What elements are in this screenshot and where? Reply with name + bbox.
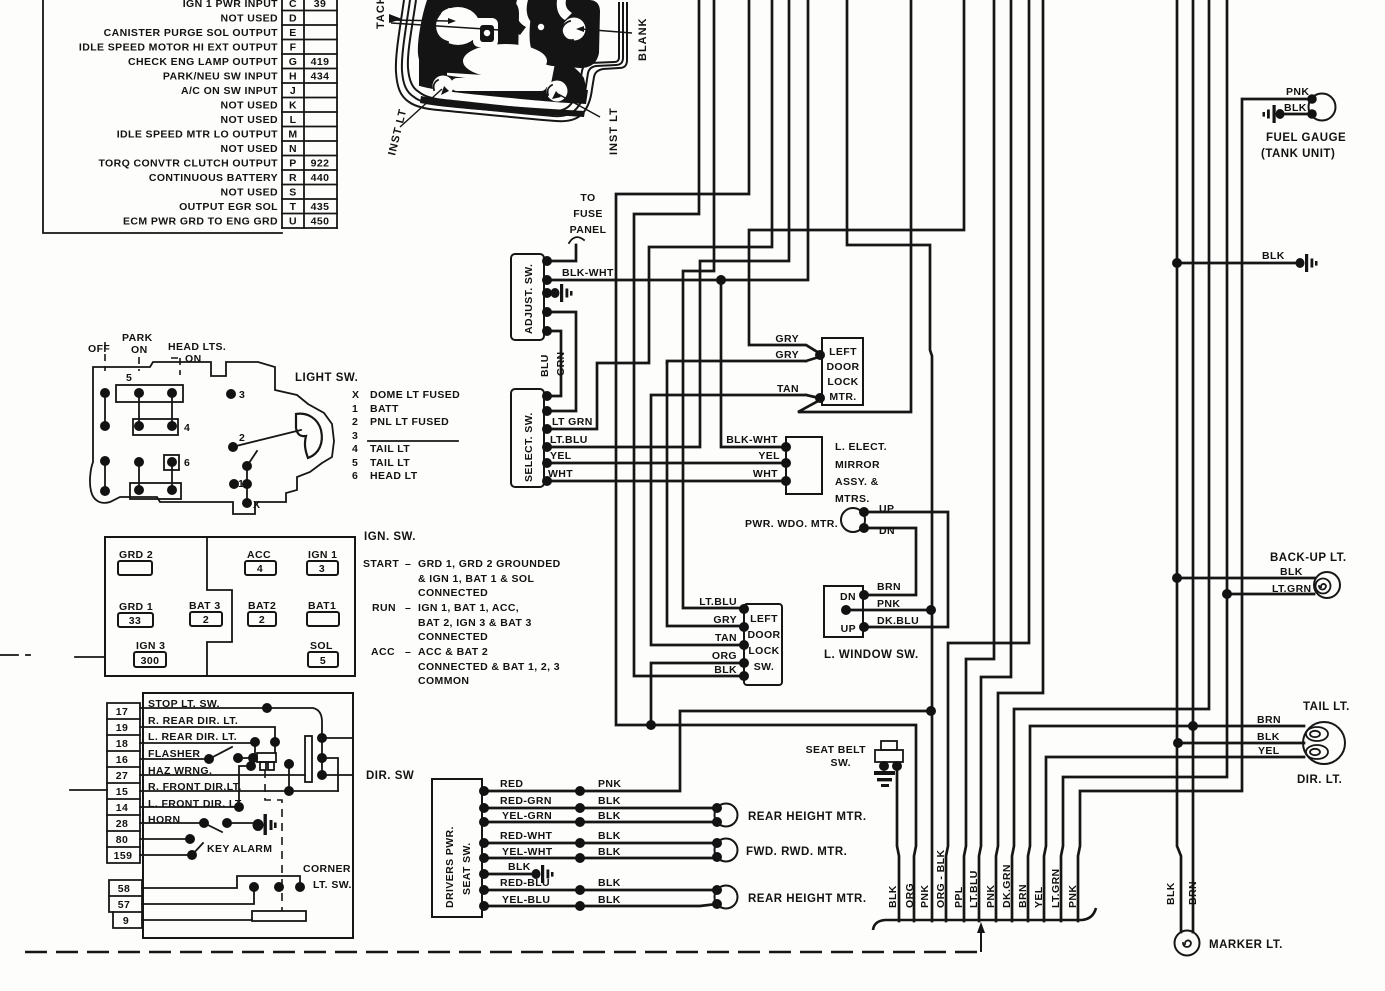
svg-text:LT.GRN: LT.GRN: [1050, 868, 1062, 908]
svg-text:–: –: [405, 602, 411, 614]
svg-text:58: 58: [118, 883, 130, 895]
svg-text:3: 3: [352, 430, 358, 442]
svg-text:9: 9: [123, 915, 129, 927]
svg-text:IDLE SPEED MTR LO OUTPUT: IDLE SPEED MTR LO OUTPUT: [117, 129, 278, 141]
svg-text:BLK: BLK: [598, 795, 621, 807]
svg-text:BLK: BLK: [598, 830, 621, 842]
svg-text:MTR.: MTR.: [829, 391, 856, 403]
svg-text:PARK: PARK: [122, 332, 153, 344]
svg-text:YEL: YEL: [1258, 745, 1280, 757]
svg-text:IGN 1 PWR INPUT: IGN 1 PWR INPUT: [183, 0, 278, 10]
svg-text:BLK: BLK: [1165, 882, 1177, 905]
svg-text:SW.: SW.: [754, 661, 774, 673]
svg-text:CONNECTED: CONNECTED: [418, 587, 488, 599]
svg-text:REAR HEIGHT MTR.: REAR HEIGHT MTR.: [748, 811, 867, 823]
svg-text:18: 18: [116, 738, 128, 750]
svg-text:P: P: [289, 158, 296, 170]
svg-text:YEL-GRN: YEL-GRN: [502, 810, 552, 822]
svg-text:FWD. RWD. MTR.: FWD. RWD. MTR.: [746, 846, 847, 858]
svg-text:33: 33: [129, 615, 141, 627]
svg-text:CHECK ENG LAMP OUTPUT: CHECK ENG LAMP OUTPUT: [128, 56, 278, 68]
svg-text:UP: UP: [879, 503, 894, 515]
svg-text:GRY: GRY: [775, 349, 799, 361]
svg-text:RED-GRN: RED-GRN: [500, 795, 552, 807]
svg-text:PNK: PNK: [1067, 885, 1079, 908]
svg-text:3: 3: [319, 563, 325, 575]
svg-text:(TANK UNIT): (TANK UNIT): [1261, 148, 1335, 160]
svg-text:6: 6: [184, 457, 190, 469]
svg-text:PNK: PNK: [919, 885, 931, 908]
svg-text:TAIL LT.: TAIL LT.: [1303, 701, 1350, 713]
svg-text:28: 28: [116, 818, 128, 830]
svg-text:CONNECTED & BAT 1, 2, 3: CONNECTED & BAT 1, 2, 3: [418, 661, 560, 673]
svg-text:LT. SW.: LT. SW.: [313, 879, 352, 891]
svg-text:ORG: ORG: [904, 883, 916, 908]
svg-text:19: 19: [116, 722, 128, 734]
svg-text:DRIVERS PWR.: DRIVERS PWR.: [444, 826, 456, 908]
svg-text:ACC: ACC: [247, 549, 271, 561]
svg-text:5: 5: [352, 457, 358, 469]
svg-text:NOT USED: NOT USED: [221, 187, 278, 199]
svg-text:OFF: OFF: [88, 343, 110, 355]
svg-text:BLK: BLK: [887, 885, 899, 908]
svg-text:F: F: [290, 42, 297, 54]
svg-text:CORNER: CORNER: [303, 863, 351, 875]
svg-text:C: C: [289, 0, 297, 10]
svg-text:BLK: BLK: [1280, 566, 1303, 578]
svg-text:BRN: BRN: [1257, 714, 1281, 726]
svg-text:2: 2: [352, 416, 358, 428]
svg-text:R. REAR DIR. LT.: R. REAR DIR. LT.: [148, 715, 238, 727]
svg-text:IDLE SPEED MOTOR HI EXT OUTPUT: IDLE SPEED MOTOR HI EXT OUTPUT: [79, 42, 278, 54]
svg-text:PNK: PNK: [598, 778, 621, 790]
svg-text:6: 6: [352, 470, 358, 482]
svg-text:922: 922: [311, 158, 330, 170]
svg-text:HEAD LTS.: HEAD LTS.: [168, 341, 226, 353]
svg-text:1: 1: [238, 478, 244, 490]
svg-text:GRN: GRN: [555, 351, 567, 376]
svg-text:TO: TO: [580, 192, 595, 204]
svg-text:57: 57: [118, 899, 130, 911]
svg-text:RED-BLU: RED-BLU: [500, 877, 550, 889]
svg-text:BRN: BRN: [1017, 884, 1029, 908]
svg-text:MIRROR: MIRROR: [835, 459, 880, 471]
svg-text:159: 159: [114, 850, 133, 862]
svg-text:RED-WHT: RED-WHT: [500, 830, 553, 842]
svg-text:GRD 2: GRD 2: [119, 549, 153, 561]
svg-text:LEFT: LEFT: [750, 613, 778, 625]
svg-text:435: 435: [311, 201, 330, 213]
svg-text:27: 27: [116, 770, 128, 782]
svg-text:DN: DN: [879, 525, 895, 537]
svg-text:SOL: SOL: [310, 640, 333, 652]
svg-text:START: START: [363, 558, 399, 570]
svg-text:GRD 1: GRD 1: [119, 601, 153, 613]
svg-text:X: X: [352, 389, 359, 401]
svg-text:BLK: BLK: [508, 861, 531, 873]
svg-text:RUN: RUN: [372, 602, 396, 614]
svg-text:R: R: [289, 172, 297, 184]
svg-text:17: 17: [116, 706, 128, 718]
svg-text:419: 419: [311, 56, 330, 68]
svg-text:KEY ALARM: KEY ALARM: [207, 843, 272, 855]
svg-text:CONNECTED: CONNECTED: [418, 631, 488, 643]
svg-text:GRY: GRY: [775, 333, 799, 345]
svg-text:BRN: BRN: [877, 581, 901, 593]
svg-text:DOOR: DOOR: [747, 629, 780, 641]
svg-text:M: M: [288, 129, 297, 141]
svg-text:ACC: ACC: [371, 646, 395, 658]
svg-text:L. FRONT DIR. LT.: L. FRONT DIR. LT.: [148, 798, 244, 810]
svg-text:L. ELECT.: L. ELECT.: [835, 441, 887, 453]
svg-text:1: 1: [352, 403, 358, 415]
svg-text:4: 4: [184, 422, 190, 434]
svg-text:BLANK: BLANK: [637, 18, 649, 62]
svg-text:GRD 1, GRD 2 GROUNDED: GRD 1, GRD 2 GROUNDED: [418, 558, 561, 570]
svg-text:SW.: SW.: [831, 757, 851, 769]
svg-text:4: 4: [352, 443, 358, 455]
svg-text:HORN: HORN: [148, 814, 181, 826]
svg-text:450: 450: [311, 216, 330, 228]
svg-text:440: 440: [311, 172, 330, 184]
svg-text:CONTINUOUS BATTERY: CONTINUOUS BATTERY: [149, 172, 278, 184]
svg-text:SELECT. SW.: SELECT. SW.: [523, 412, 535, 482]
svg-text:PWR. WDO. MTR.: PWR. WDO. MTR.: [745, 518, 838, 530]
svg-text:14: 14: [116, 802, 128, 814]
svg-text:2: 2: [239, 432, 245, 444]
svg-text:TAIL LT: TAIL LT: [370, 443, 410, 455]
svg-text:BLK-WHT: BLK-WHT: [562, 267, 614, 279]
svg-text:J: J: [290, 85, 296, 97]
svg-text:PNK: PNK: [985, 885, 997, 908]
svg-text:DN: DN: [840, 591, 856, 603]
svg-text:DOOR: DOOR: [826, 361, 859, 373]
svg-text:FUSE: FUSE: [573, 208, 603, 220]
svg-text:UP: UP: [841, 623, 856, 635]
svg-text:BLK: BLK: [598, 846, 621, 858]
svg-text:ECM PWR GRD TO ENG GRD: ECM PWR GRD TO ENG GRD: [123, 216, 278, 228]
svg-text:SEAT BELT: SEAT BELT: [806, 744, 867, 756]
svg-text:ACC & BAT 2: ACC & BAT 2: [418, 646, 488, 658]
svg-text:2: 2: [259, 614, 265, 626]
svg-text:RED: RED: [500, 778, 523, 790]
svg-text:–: –: [405, 646, 411, 658]
svg-text:ON: ON: [185, 353, 202, 365]
svg-text:BLK: BLK: [598, 810, 621, 822]
svg-text:NOT USED: NOT USED: [221, 114, 278, 126]
svg-text:ON: ON: [131, 344, 148, 356]
svg-text:E: E: [289, 27, 296, 39]
svg-text:16: 16: [116, 754, 128, 766]
svg-text:DIR. SW: DIR. SW: [366, 770, 414, 782]
svg-text:FUEL GAUGE: FUEL GAUGE: [1266, 132, 1346, 144]
svg-text:A/C ON SW INPUT: A/C ON SW INPUT: [181, 85, 278, 97]
svg-text:BLK: BLK: [1284, 102, 1307, 114]
svg-text:IGN 3: IGN 3: [136, 640, 165, 652]
svg-text:PNK: PNK: [1286, 86, 1309, 98]
svg-text:LIGHT SW.: LIGHT SW.: [295, 372, 358, 384]
svg-text:H: H: [289, 71, 297, 83]
svg-text:MARKER LT.: MARKER LT.: [1209, 939, 1283, 951]
svg-text:39: 39: [314, 0, 326, 10]
svg-text:DIR. LT.: DIR. LT.: [1297, 774, 1342, 786]
svg-text:WHT: WHT: [753, 468, 778, 480]
svg-text:BLK: BLK: [1257, 731, 1280, 743]
svg-text:BATT: BATT: [370, 403, 399, 415]
svg-text:PPL: PPL: [953, 886, 965, 908]
svg-text:BAT1: BAT1: [308, 600, 336, 612]
svg-text:YEL-BLU: YEL-BLU: [502, 894, 550, 906]
svg-text:K: K: [289, 100, 297, 112]
svg-text:3: 3: [239, 389, 245, 401]
svg-text:LT.BLU: LT.BLU: [968, 870, 980, 908]
svg-text:NOT USED: NOT USED: [221, 100, 278, 112]
svg-text:ADJUST. SW.: ADJUST. SW.: [523, 264, 535, 334]
svg-text:LT.GRN: LT.GRN: [1272, 583, 1312, 595]
svg-text:X: X: [253, 499, 260, 511]
svg-text:INST LT: INST LT: [608, 107, 620, 155]
svg-text:PNL LT FUSED: PNL LT FUSED: [370, 416, 449, 428]
svg-text:5: 5: [320, 655, 326, 667]
svg-text:TAIL LT: TAIL LT: [370, 457, 410, 469]
svg-text:BLK: BLK: [714, 664, 737, 676]
svg-text:PANEL: PANEL: [570, 224, 607, 236]
svg-text:434: 434: [311, 71, 330, 83]
svg-text:5: 5: [126, 372, 132, 384]
svg-text:BLK: BLK: [598, 894, 621, 906]
svg-text:IGN. SW.: IGN. SW.: [364, 531, 416, 543]
svg-text:TACH: TACH: [375, 0, 387, 29]
svg-text:YEL-WHT: YEL-WHT: [502, 846, 553, 858]
svg-text:GRY: GRY: [713, 614, 737, 626]
svg-text:BLK: BLK: [598, 877, 621, 889]
svg-text:IGN 1, BAT 1, ACC,: IGN 1, BAT 1, ACC,: [418, 602, 519, 614]
svg-text:YEL: YEL: [1033, 886, 1045, 908]
svg-text:LEFT: LEFT: [829, 346, 857, 358]
svg-text:N: N: [289, 143, 297, 155]
svg-text:YEL: YEL: [758, 450, 780, 462]
svg-text:BAT2: BAT2: [248, 600, 276, 612]
svg-text:DK.GRN: DK.GRN: [1001, 864, 1013, 908]
svg-text:G: G: [289, 56, 298, 68]
svg-text:–: –: [405, 558, 411, 570]
svg-text:TAN: TAN: [777, 383, 799, 395]
svg-text:& IGN 1, BAT 1 & SOL: & IGN 1, BAT 1 & SOL: [418, 573, 535, 585]
svg-text:SEAT SW.: SEAT SW.: [461, 842, 473, 895]
svg-text:TAN: TAN: [715, 632, 737, 644]
svg-text:PNK: PNK: [877, 598, 900, 610]
svg-text:NOT USED: NOT USED: [221, 13, 278, 25]
svg-text:15: 15: [116, 786, 128, 798]
svg-text:BAT 3: BAT 3: [189, 600, 221, 612]
svg-text:BLU: BLU: [539, 354, 551, 377]
svg-text:BACK-UP LT.: BACK-UP LT.: [1270, 552, 1347, 564]
svg-text:BLK: BLK: [1262, 250, 1285, 262]
svg-text:LT GRN: LT GRN: [552, 416, 593, 428]
svg-text:COMMON: COMMON: [418, 675, 469, 687]
svg-text:BLK-WHT: BLK-WHT: [726, 434, 778, 446]
svg-text:BAT 2, IGN 3 & BAT 3: BAT 2, IGN 3 & BAT 3: [418, 617, 532, 629]
svg-text:TORQ CONVTR CLUTCH OUTPUT: TORQ CONVTR CLUTCH OUTPUT: [98, 158, 278, 170]
svg-text:300: 300: [141, 655, 160, 667]
svg-text:4: 4: [257, 563, 263, 575]
svg-text:PARK/NEU SW INPUT: PARK/NEU SW INPUT: [163, 71, 278, 83]
svg-text:DK.BLU: DK.BLU: [877, 615, 919, 627]
svg-text:REAR HEIGHT MTR.: REAR HEIGHT MTR.: [748, 893, 867, 905]
svg-text:ORG: ORG: [712, 650, 737, 662]
svg-text:D: D: [289, 13, 297, 25]
svg-text:ASSY. &: ASSY. &: [835, 476, 879, 488]
svg-text:S: S: [289, 187, 296, 199]
svg-text:ORG - BLK: ORG - BLK: [935, 850, 947, 908]
svg-text:80: 80: [116, 834, 128, 846]
svg-text:L. REAR DIR. LT.: L. REAR DIR. LT.: [148, 731, 237, 743]
svg-text:DOME LT FUSED: DOME LT FUSED: [370, 389, 460, 401]
svg-text:MTRS.: MTRS.: [835, 493, 870, 505]
svg-text:T: T: [290, 201, 297, 213]
svg-text:WHT: WHT: [548, 468, 573, 480]
svg-text:U: U: [289, 216, 297, 228]
svg-text:2: 2: [203, 614, 209, 626]
svg-text:HEAD LT: HEAD LT: [370, 470, 418, 482]
svg-text:OUTPUT EGR SOL: OUTPUT EGR SOL: [179, 201, 278, 213]
svg-text:NOT USED: NOT USED: [221, 143, 278, 155]
svg-text:LOCK: LOCK: [827, 376, 858, 388]
svg-text:IGN 1: IGN 1: [308, 549, 337, 561]
svg-text:BRN: BRN: [1187, 881, 1199, 905]
svg-text:L: L: [290, 114, 297, 126]
svg-text:L. WINDOW SW.: L. WINDOW SW.: [824, 649, 919, 661]
svg-text:LT.BLU: LT.BLU: [699, 596, 737, 608]
svg-text:LT.BLU: LT.BLU: [550, 434, 588, 446]
svg-text:LOCK: LOCK: [748, 645, 779, 657]
svg-text:CANISTER PURGE SOL OUTPUT: CANISTER PURGE SOL OUTPUT: [104, 27, 279, 39]
svg-text:YEL: YEL: [550, 450, 572, 462]
